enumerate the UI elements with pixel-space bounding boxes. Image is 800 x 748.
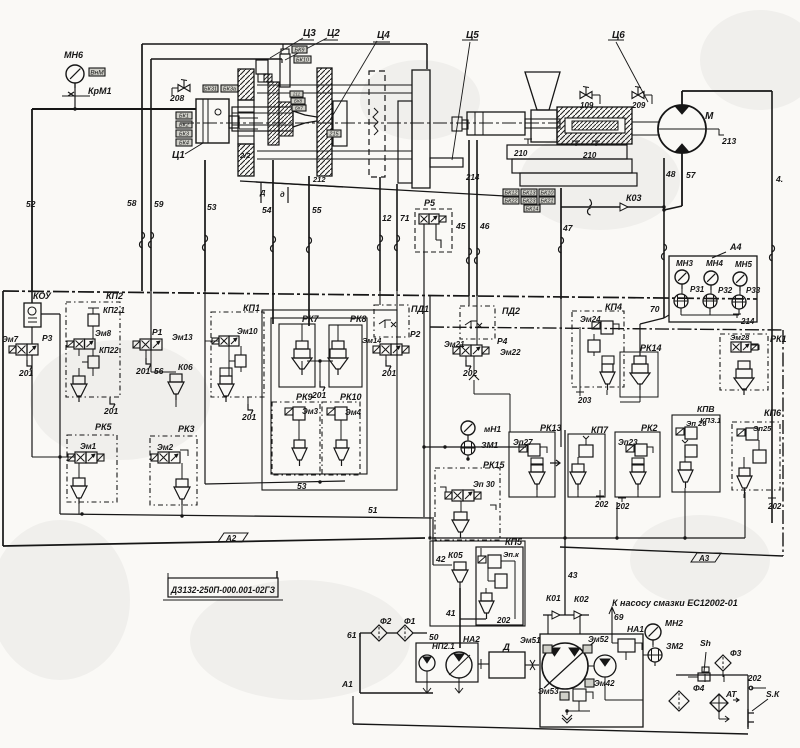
svg-text:АТ: АТ: [725, 689, 737, 699]
svg-text:Эм53: Эм53: [538, 687, 559, 696]
svg-text:Ц5: Ц5: [466, 30, 479, 41]
svg-text:Ц2: Ц2: [327, 28, 340, 39]
relief RK7: [296, 341, 308, 349]
title block: [168, 578, 278, 597]
svg-text:МН5: МН5: [735, 260, 752, 269]
svg-text:12: 12: [382, 213, 392, 223]
line K03: [561, 206, 664, 208]
svg-text:БК3: БК3: [179, 132, 190, 138]
ejector box: [333, 101, 347, 146]
tie bar upper: [257, 84, 412, 86]
svg-text:52: 52: [26, 199, 36, 209]
relief RK1: [738, 361, 750, 369]
coupling right: [525, 664, 539, 666]
svg-text:КП4: КП4: [605, 302, 622, 312]
platen rear box: [398, 101, 412, 183]
svg-text:53: 53: [207, 202, 217, 212]
injection cylinder: [467, 112, 525, 135]
svg-text:Р3: Р3: [42, 333, 53, 343]
wire 53: [204, 160, 206, 291]
labels BK9 BK10: [292, 46, 307, 53]
svg-text:РК9: РК9: [296, 392, 313, 402]
wire from MH6 to cylinder line: [32, 108, 196, 110]
pump drains: [426, 671, 428, 693]
mold dashed: [369, 71, 385, 177]
funnel RK9: [292, 448, 307, 460]
KP5 sq: [495, 574, 507, 588]
svg-text:БК14: БК14: [526, 207, 539, 213]
box A3 border: [430, 327, 783, 330]
svg-text:КП1: КП1: [243, 303, 260, 313]
svg-text:НА1: НА1: [627, 624, 644, 634]
valve R5: [415, 209, 452, 252]
svg-text:Ц1: Ц1: [172, 150, 185, 161]
wire from R5 down mid: [423, 252, 425, 517]
svg-text:РК5: РК5: [95, 422, 113, 432]
svg-text:КП6: КП6: [764, 408, 782, 418]
wire 52: [31, 109, 33, 291]
barrel hatched: [557, 107, 632, 144]
svg-text:Эм1: Эм1: [80, 442, 97, 451]
cylinder C1: [239, 117, 258, 119]
injection base plates: [507, 145, 627, 159]
A4 internal wiring: [681, 284, 683, 294]
svg-text:ЗМ1: ЗМ1: [481, 440, 499, 450]
svg-text:2/2: 2/2: [239, 151, 251, 160]
block RK1 box: [720, 334, 768, 390]
svg-text:201: 201: [18, 368, 33, 378]
svg-text:Эп 30: Эп 30: [473, 480, 495, 489]
tank 201 R2: [385, 355, 387, 362]
RK group outer box: [262, 310, 397, 490]
right drain column: [676, 674, 748, 676]
svg-text:КП7: КП7: [591, 425, 609, 435]
flag A3: [691, 553, 721, 562]
PD2 internals: [465, 321, 477, 329]
svg-text:201: 201: [241, 412, 256, 422]
svg-text:НП2.1: НП2.1: [432, 642, 455, 651]
PD1 internals: [379, 320, 391, 328]
svg-text:43: 43: [567, 570, 578, 580]
svg-text:201: 201: [311, 390, 326, 400]
block KP2 box: [66, 302, 120, 397]
svg-text:МН4: МН4: [706, 259, 723, 268]
KP3 sq: [685, 445, 697, 457]
svg-text:Р2: Р2: [410, 329, 421, 339]
wire 71: [396, 184, 398, 291]
svg-text:Р33: Р33: [746, 286, 761, 295]
svg-text:РК8: РК8: [350, 314, 367, 324]
svg-text:57: 57: [686, 170, 697, 180]
bottom collect line: [60, 514, 432, 518]
block PD1 box: [374, 305, 409, 337]
KP4 sq: [588, 340, 600, 352]
svg-text:ВнМ: ВнМ: [90, 70, 104, 77]
check below R4: [473, 356, 475, 376]
funnel RK15: [452, 520, 469, 532]
svg-text:БК3а: БК3а: [223, 87, 236, 93]
wire 58 top run: [426, 44, 428, 69]
svg-text:БК13: БК13: [523, 191, 537, 197]
svg-text:БК22: БК22: [505, 199, 518, 205]
valve 109: [580, 92, 586, 99]
block KP6 box: [732, 422, 780, 490]
block RK3 box: [150, 436, 197, 505]
svg-text:РК1: РК1: [770, 334, 787, 344]
upper cylinders C3 C2: [280, 54, 290, 87]
gauge MH2: [645, 624, 661, 640]
svg-text:Ф4: Ф4: [693, 683, 705, 693]
valve KP1 sq: [235, 355, 246, 367]
svg-text:Ц4: Ц4: [377, 30, 390, 41]
valve KrM1: [68, 92, 74, 96]
svg-text:42: 42: [435, 554, 446, 564]
svg-text:ЗМ2: ЗМ2: [666, 641, 684, 651]
svg-text:К насосу смазки ЕС12002-01: К насосу смазки ЕС12002-01: [612, 598, 738, 608]
box A2 border: [3, 291, 757, 299]
svg-text:БК10: БК10: [296, 58, 310, 64]
funnel RK3: [174, 487, 190, 499]
svg-text:М: М: [705, 111, 714, 122]
svg-text:КрМ1: КрМ1: [88, 86, 112, 96]
svg-text:ПД2: ПД2: [502, 306, 520, 316]
svg-text:201: 201: [381, 368, 396, 378]
svg-text:202: 202: [594, 500, 609, 509]
label grid BK row3: [524, 205, 540, 212]
labels BK1-BK4: [176, 112, 192, 119]
svg-text:46: 46: [479, 221, 490, 231]
svg-text:201: 201: [135, 366, 150, 376]
RK15 hooks: [440, 487, 446, 492]
funnel KP6: [737, 476, 752, 488]
svg-text:45: 45: [455, 221, 466, 231]
svg-text:БК1: БК1: [179, 114, 189, 120]
wire 43: [564, 430, 566, 615]
svg-text:210: 210: [582, 151, 597, 160]
svg-text:А4: А4: [729, 242, 742, 252]
svg-text:Эп27: Эп27: [513, 438, 533, 447]
svg-text:70: 70: [650, 304, 660, 314]
block KP3 box: [672, 415, 720, 492]
svg-text:Эм28: Эм28: [730, 333, 750, 342]
funnel KP5: [479, 601, 494, 613]
filter lines: [704, 674, 706, 682]
labels BK31 BK3a: [203, 85, 218, 92]
wire below R3: [31, 355, 33, 457]
motor shaft: [632, 121, 660, 123]
svg-text:213: 213: [721, 136, 736, 146]
svg-text:48: 48: [665, 169, 676, 179]
svg-text:РК15: РК15: [483, 460, 506, 470]
svg-text:202: 202: [496, 616, 511, 625]
svg-text:К06: К06: [178, 362, 193, 372]
KP1 wiring: [228, 346, 230, 376]
svg-text:ДЗ132-250П-000.001-02ГЗ: ДЗ132-250П-000.001-02ГЗ: [170, 585, 275, 596]
svg-text:КП2.1: КП2.1: [103, 306, 125, 315]
gauge panel A4 box: [669, 256, 757, 322]
pressure gauge MH6: [66, 65, 84, 83]
svg-text:БК21: БК21: [541, 199, 554, 205]
toggle block hatched: [268, 82, 279, 145]
nozzle parts: [452, 117, 462, 131]
svg-text:Р32: Р32: [718, 286, 733, 295]
svg-text:БК23: БК23: [523, 199, 537, 205]
funnel RK10: [334, 448, 349, 460]
svg-text:Ф3: Ф3: [730, 648, 742, 658]
wire 45: [468, 140, 470, 296]
svg-text:ПД1: ПД1: [411, 304, 429, 314]
wire 53 inner: [204, 291, 206, 484]
svg-text:212: 212: [312, 175, 326, 184]
wire ZM1 row: [424, 446, 526, 448]
relief RK8: [332, 341, 344, 349]
svg-text:Эм8: Эм8: [95, 329, 112, 338]
gauge MH1: [461, 421, 475, 435]
main pump box: [540, 634, 643, 727]
svg-text:А2: А2: [225, 534, 237, 543]
svg-text:БК4: БК4: [179, 141, 189, 147]
svg-text:А3: А3: [698, 554, 710, 563]
svg-text:Эм7: Эм7: [2, 335, 19, 344]
wire 48: [663, 158, 665, 318]
tank 201 KP1: [248, 404, 253, 410]
svg-text:Д: Д: [502, 642, 510, 653]
flag A2: [218, 533, 248, 542]
funnel KP1: [218, 384, 234, 396]
svg-text:Эм51: Эм51: [520, 636, 541, 645]
carriage bracket: [430, 158, 463, 167]
svg-text:53: 53: [297, 481, 307, 491]
svg-text:Эм2: Эм2: [157, 443, 174, 452]
svg-text:50: 50: [429, 632, 439, 642]
svg-text:Р4: Р4: [497, 336, 508, 346]
main ram shaft: [232, 107, 293, 131]
svg-text:Эм13: Эм13: [172, 333, 193, 342]
svg-text:БК12: БК12: [505, 191, 518, 197]
moving platen hatched: [238, 69, 254, 100]
svg-text:К03: К03: [626, 193, 642, 203]
svg-text:НА2: НА2: [463, 634, 480, 644]
switch ZM1: [461, 441, 475, 455]
motor top pipe to wire 4: [681, 91, 683, 106]
svg-text:Ф1: Ф1: [404, 616, 416, 626]
block RK13 box: [509, 432, 555, 497]
KP6 sq: [753, 450, 766, 463]
funnel RK5: [71, 486, 87, 498]
svg-text:41: 41: [445, 608, 456, 618]
svg-text:А1: А1: [341, 679, 353, 689]
svg-text:РК13: РК13: [540, 423, 562, 433]
RK group inner box: [271, 318, 367, 474]
svg-text:БК10: БК10: [541, 191, 555, 197]
suction line: [360, 632, 371, 634]
tank 201 under R3: [26, 355, 28, 362]
block RK7 box: [279, 324, 315, 387]
svg-text:58: 58: [127, 198, 137, 208]
valve 209: [632, 92, 638, 99]
wire 47: [560, 188, 562, 299]
svg-text:БК8: БК8: [294, 99, 303, 104]
svg-text:59: 59: [154, 199, 164, 209]
pump unit NP2.1 box: [416, 643, 478, 682]
svg-text:56: 56: [154, 366, 164, 376]
svg-text:Эм24: Эм24: [580, 315, 601, 324]
svg-text:БК9: БК9: [295, 48, 305, 54]
svg-text:К02: К02: [574, 594, 589, 604]
svg-text:215: 215: [328, 132, 339, 138]
svg-text:61: 61: [347, 630, 357, 640]
block RK8 box: [329, 325, 362, 387]
svg-text:К05: К05: [448, 550, 463, 560]
coupling left: [478, 663, 489, 665]
svg-text:Эм14: Эм14: [362, 336, 382, 345]
svg-text:Д: Д: [259, 188, 266, 197]
tank 201 KP2: [110, 398, 115, 404]
pump big NA2: [446, 652, 472, 678]
svg-text:БК31: БК31: [204, 87, 217, 93]
block KP7 box: [568, 434, 605, 497]
tank 201 R1: [145, 350, 147, 360]
block KP5 box: [430, 541, 525, 626]
KP4 wiring: [579, 327, 581, 392]
svg-text:Sh: Sh: [700, 638, 711, 648]
stationary platen: [412, 70, 430, 188]
svg-text:214: 214: [740, 317, 755, 326]
block RK5 box: [67, 435, 117, 502]
collector line mid: [432, 537, 745, 539]
svg-text:209: 209: [631, 101, 646, 110]
funnel RK2: [630, 472, 646, 484]
svg-text:БК7: БК7: [295, 106, 304, 111]
relief KP4 funnel: [600, 372, 615, 384]
block RK9 box: [272, 402, 320, 475]
svg-text:МН2: МН2: [665, 618, 683, 628]
label 215: [327, 130, 341, 137]
svg-text:РК7: РК7: [302, 314, 320, 324]
center line: [180, 122, 560, 124]
pump relief: [573, 689, 586, 701]
svg-text:К01: К01: [546, 593, 561, 603]
svg-text:201: 201: [103, 406, 118, 416]
funnel KP7: [570, 472, 586, 484]
wire 54: [272, 160, 274, 324]
svg-text:РК2: РК2: [641, 423, 658, 433]
svg-text:55: 55: [312, 205, 322, 215]
tank 202 R4: [465, 356, 467, 362]
svg-text:Р31: Р31: [690, 285, 705, 294]
switch ZM2: [648, 648, 662, 662]
motor D box: [489, 652, 525, 678]
svg-text:S.К: S.К: [766, 689, 780, 699]
block KP4 box: [572, 311, 624, 387]
svg-text:202: 202: [767, 502, 782, 511]
svg-text:69: 69: [614, 612, 624, 622]
valve 208: [178, 85, 184, 92]
svg-text:Ф2: Ф2: [380, 616, 392, 626]
svg-text:КПВ: КПВ: [697, 404, 714, 414]
svg-text:47: 47: [562, 223, 574, 233]
funnel KP2: [71, 384, 87, 396]
small labels 211 BK8 BK7: [290, 91, 303, 97]
svg-text:д: д: [280, 190, 285, 199]
hydraulic motor M: [658, 105, 706, 153]
svg-text:54: 54: [262, 205, 272, 215]
pump small: [419, 655, 435, 671]
block RK2 box: [615, 432, 660, 497]
svg-text:Эм52: Эм52: [588, 635, 609, 644]
svg-text:КП2: КП2: [106, 291, 123, 301]
KP2 wiring: [92, 326, 94, 339]
svg-text:208: 208: [169, 93, 184, 103]
svg-text:210: 210: [513, 149, 528, 158]
svg-text:МН3: МН3: [676, 259, 693, 268]
svg-text:202: 202: [747, 674, 762, 683]
wire 55: [308, 176, 310, 326]
label grid BK row2: [503, 197, 519, 204]
svg-text:211: 211: [292, 92, 301, 97]
KOU outlet wire: [41, 313, 60, 315]
hopper: [525, 72, 560, 110]
svg-text:Эм22: Эм22: [500, 348, 521, 357]
block PD2 box: [460, 306, 495, 339]
RK7 RK8 common: [301, 361, 303, 369]
wire 59 top run: [282, 44, 284, 49]
block RK10 box: [322, 402, 360, 475]
wire A1: [359, 633, 361, 693]
svg-text:Эм10: Эм10: [237, 327, 258, 336]
svg-text:мН1: мН1: [484, 424, 501, 434]
wire 12: [379, 177, 381, 291]
main pump big circle: [542, 643, 588, 689]
block RK15 box: [435, 468, 500, 540]
svg-text:РК3: РК3: [178, 424, 195, 434]
funnel RK13: [529, 472, 545, 484]
svg-text:71: 71: [400, 213, 410, 223]
svg-text:51: 51: [368, 505, 378, 515]
funnel KP3: [678, 470, 693, 482]
svg-text:Эп.к: Эп.к: [503, 550, 520, 559]
wire 42: [432, 517, 434, 541]
pump outlet: [604, 677, 606, 700]
svg-text:КП22: КП22: [99, 346, 119, 355]
svg-text:РК14: РК14: [640, 343, 662, 353]
wire 4 right edge: [771, 91, 773, 523]
label grid BK row1: [503, 189, 519, 196]
svg-text:БК2: БК2: [179, 123, 189, 129]
bottom frame line: [353, 724, 748, 734]
svg-text:Р5: Р5: [424, 198, 436, 208]
svg-text:Ц3: Ц3: [303, 28, 316, 39]
block KP1 box: [211, 312, 264, 397]
pump small circle: [594, 655, 616, 677]
svg-text:203: 203: [577, 396, 592, 405]
fixed platen hatched: [317, 68, 332, 176]
KP7 sq: [579, 445, 593, 457]
svg-text:МН6: МН6: [64, 50, 84, 60]
tie bar lower: [257, 150, 412, 152]
svg-text:4.: 4.: [775, 174, 783, 184]
svg-text:Ц6: Ц6: [612, 30, 625, 41]
svg-text:КОУ: КОУ: [33, 291, 52, 301]
relief RK14: [620, 352, 658, 397]
wire 46: [476, 140, 478, 296]
wire 57: [681, 153, 683, 206]
frame base line: [240, 181, 505, 196]
svg-text:Р1: Р1: [152, 327, 163, 337]
svg-text:РК10: РК10: [340, 392, 362, 402]
